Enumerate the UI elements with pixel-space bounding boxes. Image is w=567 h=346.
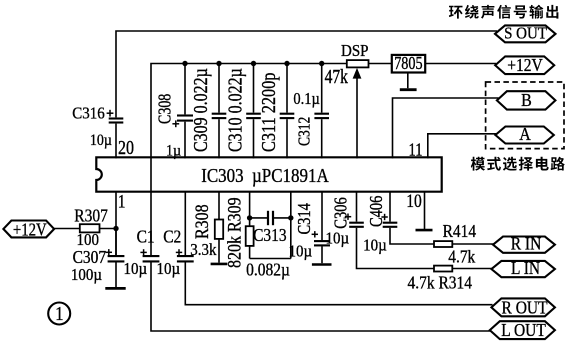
svg-text:0.1µ: 0.1µ bbox=[293, 90, 319, 108]
wire C1 to L OUT bbox=[151, 262, 491, 331]
label C312 bbox=[295, 117, 314, 146]
capacitor C312 bbox=[314, 114, 329, 118]
svg-text:C308: C308 bbox=[156, 94, 175, 124]
svg-text:C311 2200p: C311 2200p bbox=[257, 73, 279, 152]
svg-text:1: 1 bbox=[55, 303, 63, 324]
wire pin 10 to ground bbox=[424, 192, 426, 230]
svg-text:1: 1 bbox=[118, 191, 126, 212]
capacitor C307 bbox=[108, 256, 125, 261]
svg-text:DSP: DSP bbox=[341, 42, 369, 60]
wire pin12 to B bbox=[393, 98, 499, 158]
value 1µ of C308 bbox=[166, 143, 181, 160]
capacitor C316 bbox=[109, 119, 124, 123]
polarity + of C306 bbox=[345, 214, 351, 220]
wire pin to C306 bbox=[356, 192, 358, 222]
label C307 bbox=[73, 247, 107, 267]
pin number 10 bbox=[406, 191, 421, 212]
svg-text:C1: C1 bbox=[137, 226, 155, 246]
svg-text:+12V: +12V bbox=[13, 219, 47, 240]
wire C313 bottom link bbox=[250, 258, 291, 260]
wire C308 column bbox=[184, 64, 186, 159]
svg-text:0.082µ: 0.082µ bbox=[246, 259, 290, 279]
svg-text:R IN: R IN bbox=[511, 234, 542, 254]
wire C313 top link right bbox=[273, 217, 291, 219]
ground of C314 bbox=[312, 263, 332, 266]
capacitor C311 bbox=[280, 114, 295, 118]
connector L IN bbox=[491, 258, 555, 278]
value 10µ of C314 bbox=[289, 243, 313, 261]
svg-text:C306: C306 bbox=[330, 197, 351, 228]
wire C309 column bbox=[218, 64, 220, 159]
svg-text:R307: R307 bbox=[74, 205, 108, 225]
ground of 7805 bbox=[400, 73, 417, 90]
polarity + of C314 bbox=[312, 231, 318, 237]
polarity + of C307 bbox=[106, 249, 112, 255]
label C314 bbox=[293, 203, 314, 234]
wire pin11 to A bbox=[428, 134, 497, 159]
svg-text:C309 0.022µ: C309 0.022µ bbox=[189, 68, 211, 152]
wire pin to R309 branch bbox=[249, 192, 251, 226]
svg-text:B: B bbox=[521, 90, 532, 110]
mode select dashed box bbox=[486, 82, 564, 149]
label DSP bbox=[341, 42, 369, 60]
wire R314 to L IN bbox=[452, 268, 493, 270]
ground of C307 bbox=[105, 287, 125, 290]
wire C316 to pin 20 bbox=[115, 124, 117, 159]
node junction bus-C308 bbox=[182, 61, 187, 66]
label R307 bbox=[74, 205, 108, 225]
value 0.082µ of C313 bbox=[246, 259, 290, 279]
svg-text:C307: C307 bbox=[73, 247, 107, 267]
label 环绕声信号输出 (surround signal output) bbox=[449, 5, 559, 19]
svg-text:R308: R308 bbox=[191, 204, 213, 239]
svg-text:11: 11 bbox=[409, 139, 423, 160]
connector R IN bbox=[493, 234, 555, 254]
wire R309 to bottom link bbox=[249, 246, 251, 259]
resistor R309 bbox=[246, 226, 254, 246]
pin number 1 bbox=[118, 191, 126, 212]
wire C2 column to R OUT bbox=[185, 192, 492, 305]
label R414 bbox=[443, 221, 477, 241]
resistor R308 bbox=[215, 220, 223, 239]
value 10µ of C1 bbox=[124, 260, 148, 278]
svg-text:20: 20 bbox=[118, 136, 134, 158]
resistor R414 bbox=[434, 241, 452, 247]
capacitor C313 bbox=[268, 211, 273, 225]
resistor R307 bbox=[80, 224, 100, 232]
svg-text:10: 10 bbox=[406, 191, 421, 212]
wire DSP pot to 7805 bbox=[368, 63, 392, 65]
wire R414 to R IN bbox=[452, 243, 494, 245]
svg-text:3.3k: 3.3k bbox=[190, 241, 217, 259]
svg-text:R414: R414 bbox=[443, 221, 477, 241]
capacitor C2 bbox=[177, 256, 194, 261]
polarity + of C2 bbox=[176, 249, 182, 255]
value 10µ of C2 bbox=[157, 260, 181, 278]
svg-text:L OUT: L OUT bbox=[501, 320, 546, 340]
svg-text:C314: C314 bbox=[293, 203, 314, 234]
wire top capacitor bus bbox=[151, 64, 347, 257]
value 47k of DSP bbox=[325, 65, 348, 87]
svg-text:C2: C2 bbox=[163, 226, 181, 246]
polarity + of C308 bbox=[172, 120, 179, 127]
svg-text:A: A bbox=[519, 124, 531, 144]
svg-text:100µ: 100µ bbox=[71, 266, 102, 284]
svg-text:4.7k R314: 4.7k R314 bbox=[408, 272, 473, 292]
polarity + of C406 bbox=[381, 214, 387, 220]
capacitor C314 bbox=[314, 241, 330, 245]
op-amp IC U-IC303 body bbox=[96, 157, 441, 191]
figure number circle 1 bbox=[48, 303, 70, 325]
wire pin20 to C316 to S OUT bbox=[116, 31, 497, 117]
svg-text:C406: C406 bbox=[365, 196, 386, 227]
connector A bbox=[495, 124, 553, 144]
value 0.1µ of C312 bbox=[293, 90, 319, 108]
svg-text:10µ: 10µ bbox=[363, 237, 387, 255]
wire C313 right branch bbox=[290, 192, 292, 259]
label 4.7k R314 bbox=[408, 272, 473, 292]
wire C312 column bbox=[321, 64, 323, 159]
label C2 bbox=[163, 226, 181, 246]
wire C406 to R414 bbox=[390, 228, 434, 244]
svg-text:C310 0.022µ: C310 0.022µ bbox=[224, 68, 246, 152]
capacitor C308 bbox=[177, 116, 193, 121]
label µPC1891A bbox=[252, 165, 330, 186]
svg-text:47k: 47k bbox=[325, 65, 348, 87]
label 模式选择电路 (mode select circuit) bbox=[471, 157, 565, 171]
wiper arrow of DSP pot bbox=[353, 68, 362, 158]
wire R308 to ground bbox=[218, 239, 220, 263]
svg-text:1µ: 1µ bbox=[166, 143, 181, 160]
value 10µ of C316 bbox=[90, 132, 112, 149]
node junction bus-C311 bbox=[284, 61, 289, 66]
svg-text:C313: C313 bbox=[253, 225, 287, 245]
svg-text:S OUT: S OUT bbox=[504, 25, 547, 43]
svg-text:R OUT: R OUT bbox=[501, 297, 547, 317]
wire C306 to R314 bbox=[357, 228, 435, 269]
pin number 11 bbox=[409, 139, 423, 160]
label C1 bbox=[137, 226, 155, 246]
connector R OUT bbox=[491, 297, 555, 317]
wire pin 1 down bbox=[115, 192, 117, 256]
svg-text:L IN: L IN bbox=[511, 258, 540, 278]
value 10µ of C306 bbox=[326, 230, 350, 248]
svg-text:10µ: 10µ bbox=[157, 260, 181, 278]
connector S OUT bbox=[495, 25, 556, 43]
value 10µ of C406 bbox=[363, 237, 387, 255]
label IC303 bbox=[201, 165, 243, 186]
node junction bus-C310 bbox=[251, 61, 256, 66]
label C309 0.022µ bbox=[189, 68, 211, 152]
wire C313 top link left bbox=[250, 217, 268, 219]
svg-text:820k R309: 820k R309 bbox=[223, 197, 245, 268]
capacitor C406 bbox=[383, 223, 398, 227]
wire +12V to R307 bbox=[53, 228, 80, 230]
wire C310 column bbox=[253, 64, 255, 159]
svg-text:10µ: 10µ bbox=[289, 243, 313, 261]
wire pin to R308 bbox=[218, 192, 220, 220]
svg-text:IC303: IC303 bbox=[201, 165, 243, 186]
label 820k R309 bbox=[223, 197, 245, 268]
node junction C313 left bbox=[247, 215, 252, 220]
svg-text:10µ: 10µ bbox=[326, 230, 350, 248]
capacitor C1 bbox=[143, 256, 160, 261]
svg-text:+12V: +12V bbox=[507, 55, 542, 75]
value 4.7k of R414 bbox=[448, 247, 476, 267]
label C316 bbox=[72, 105, 104, 123]
svg-text:4.7k: 4.7k bbox=[448, 247, 476, 267]
value 3.3k of R308 bbox=[190, 241, 217, 259]
svg-text:7805: 7805 bbox=[394, 52, 422, 73]
wire 7805 to +12V bbox=[425, 63, 496, 65]
connector +12V left bbox=[3, 219, 54, 240]
label C313 bbox=[253, 225, 287, 245]
wire C307 to ground bbox=[115, 262, 117, 287]
svg-text:µPC1891A: µPC1891A bbox=[252, 165, 330, 186]
ground of R308 bbox=[211, 263, 228, 266]
polarity + of C316 bbox=[107, 110, 114, 117]
connector L OUT bbox=[490, 320, 555, 340]
capacitor C310 bbox=[246, 114, 261, 118]
resistor R314 bbox=[434, 266, 452, 272]
node junction bus-C309 bbox=[216, 61, 221, 66]
node junction bus-C312-pot bbox=[319, 61, 324, 66]
potentiometer DSP body bbox=[347, 60, 369, 67]
wire node to C307 bbox=[115, 229, 117, 257]
wire pin to C406 bbox=[389, 192, 391, 222]
wire C314 to ground bbox=[321, 246, 323, 263]
value 100µ of C307 bbox=[71, 266, 102, 284]
capacitor C309 bbox=[212, 114, 227, 118]
label C308 bbox=[156, 94, 175, 124]
svg-text:10µ: 10µ bbox=[124, 260, 148, 278]
connector +12V right bbox=[495, 55, 554, 75]
label C310 0.022µ bbox=[224, 68, 246, 152]
svg-text:C312: C312 bbox=[295, 117, 314, 146]
capacitor C306 bbox=[349, 223, 364, 227]
wire R307 to pin1 node bbox=[100, 228, 117, 230]
value 100 of R307 bbox=[77, 231, 99, 249]
label C306 bbox=[330, 197, 351, 228]
label C406 bbox=[365, 196, 386, 227]
label C311 2200p bbox=[257, 73, 279, 152]
wire pin to C314 bbox=[321, 192, 323, 240]
polarity + of C1 bbox=[140, 249, 146, 255]
node junction R307-pin1 bbox=[113, 226, 118, 231]
svg-text:C316: C316 bbox=[72, 105, 104, 123]
svg-text:10µ: 10µ bbox=[90, 132, 112, 149]
node junction C313 right bbox=[288, 215, 293, 220]
wire C311 column bbox=[286, 64, 288, 159]
voltage regulator U-7805 bbox=[392, 52, 425, 73]
ground of pin 10 bbox=[416, 229, 433, 232]
pin number 20 bbox=[118, 136, 134, 158]
connector B bbox=[497, 90, 556, 110]
label R308 bbox=[191, 204, 213, 239]
